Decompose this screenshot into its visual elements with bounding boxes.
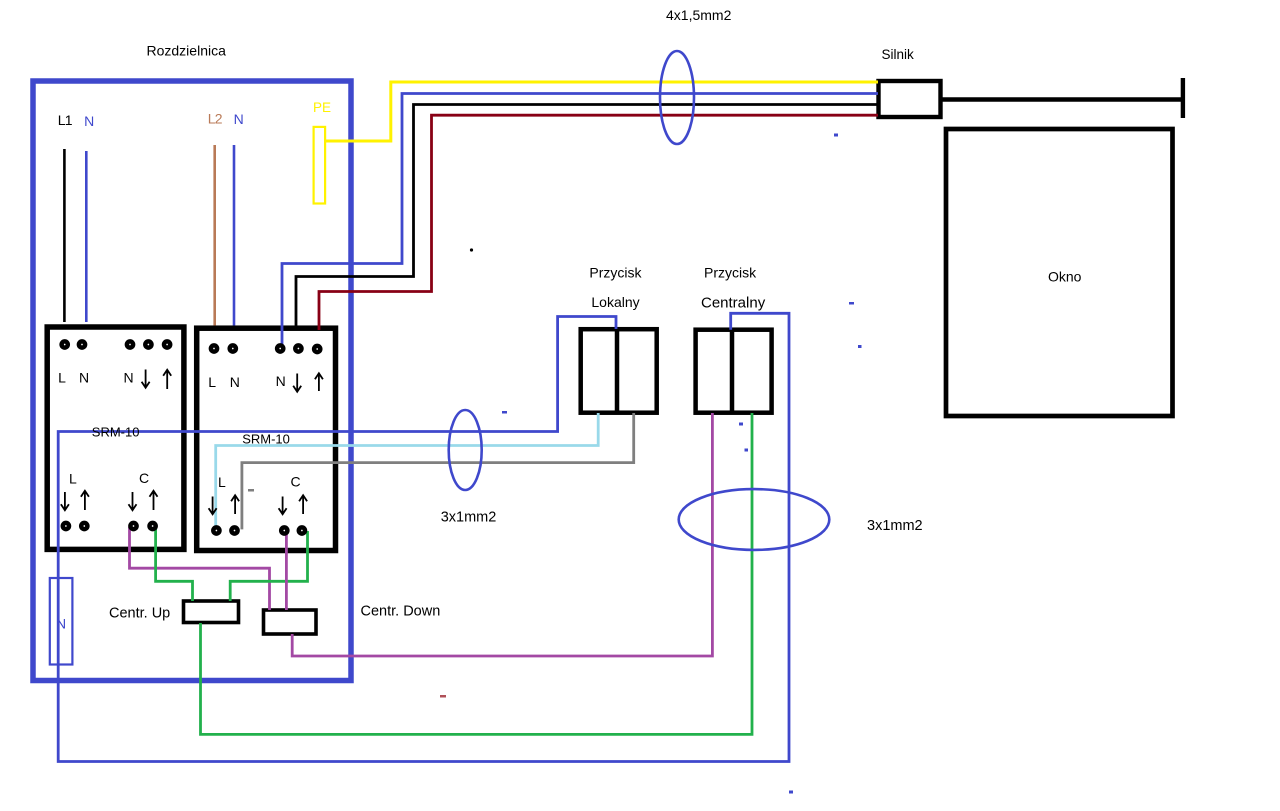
arrow U1 bottom C down [129,492,137,510]
wire motor down phase (dark red) [319,115,878,330]
terminal block Centr. Down (box) [264,610,317,634]
wire Centr. Up to central button (green) [201,413,753,734]
terminal block Centr. Up (box) [184,601,239,623]
arrow U2 bottom C down [279,497,287,515]
wire motor up phase (black) [296,105,878,331]
svg-text:Przycisk: Przycisk [589,265,642,281]
relay module U2 SRM-10 (right box) [197,328,336,550]
wire U2 C-down to Centr. Down (purple) [285,531,288,610]
terminals U1 top L N [62,341,86,347]
stray mark gray dash [248,489,254,492]
terminals U2 top N down up [277,345,320,352]
svg-text:N: N [56,616,66,632]
svg-text:N: N [79,370,89,386]
arrow U1 bottom C up [150,491,158,510]
wire Centr. Down to central button (purple) [292,413,712,656]
neutral busbar N (blue box) [50,578,73,665]
svg-text:3x1mm2: 3x1mm2 [441,510,497,526]
stray mark blue dot (near Centralny) [739,423,743,426]
window Okno (box) [946,129,1173,416]
svg-text:Przycisk: Przycisk [704,265,757,281]
svg-text:N: N [230,374,240,390]
cable marker ellipse 3x1mm2 (left) [449,410,482,490]
wire L1 feed (black) [63,149,66,322]
svg-text:Lokalny: Lokalny [591,294,639,310]
svg-text:N: N [234,111,244,127]
stray mark blue dot (below Centralny) [745,449,749,452]
wire motor N (blue) [282,94,878,349]
svg-text:Silnik: Silnik [882,47,915,62]
arrow U1 bottom L down [61,492,69,510]
svg-text:L: L [58,370,66,386]
stray mark blue dash (mid) [849,302,854,305]
cable marker ellipse 3x1mm2 (right) [679,489,830,550]
arrow U2 bottom C up [299,495,307,514]
svg-text:Centr. Up: Centr. Up [109,606,170,622]
wire N feed to U1 (blue) [85,151,88,322]
arrow U2 top up [315,373,323,391]
svg-text:N: N [276,373,286,389]
svg-text:Centr. Down: Centr. Down [361,604,441,620]
svg-text:SRM-10: SRM-10 [92,425,140,440]
svg-text:N: N [124,370,134,386]
arrow U2 bottom L down [209,497,217,515]
pushbutton S1 Przycisk Lokalny (box) [581,329,657,413]
wire U1 C-down to Centr. Down (purple) [130,527,270,610]
terminals U2 bottom C [281,527,305,533]
terminals U1 top N down up [127,341,170,347]
terminals U2 bottom L [213,527,237,533]
wire U2 C-up to Centr. Up (green) [230,531,307,601]
svg-text:C: C [139,470,149,486]
stray mark blue dash (near ellipse) [502,411,507,414]
terminals U2 top L N [211,345,236,351]
motor shaft end bar [1181,78,1185,118]
relay module U1 SRM-10 (left box) [47,327,184,549]
svg-text:L1: L1 [58,112,73,128]
stray mark black dot [470,248,473,251]
arrow U1 bottom L up [81,491,89,510]
svg-text:Centralny: Centralny [701,294,766,311]
svg-text:L2: L2 [208,110,223,126]
pushbutton S2 divider [730,330,735,413]
terminals U1 bottom C [130,523,155,529]
svg-text:C: C [291,474,301,490]
wire L2 feed (brown) [213,145,216,326]
wire U1 C-up to Centr. Up (green) [156,527,193,601]
wire local button to U2 L-up (gray) [242,413,634,529]
motor shaft line [941,97,1183,102]
terminals U1 bottom L [63,523,88,529]
enclosure Rozdzielnica (distribution board outline) [33,81,351,681]
wire neutral N loop (blue): local button, N bus, central button [58,313,789,761]
svg-text:Okno: Okno [1048,269,1082,285]
stray mark blue dot (bottom) [789,791,793,794]
svg-text:SRM-10: SRM-10 [242,432,290,447]
arrow U1 top down [142,370,150,388]
svg-text:L: L [218,474,226,490]
svg-text:PE: PE [313,100,331,115]
wire N feed to U2 (blue) [233,145,236,326]
svg-text:N: N [84,113,94,129]
arrow U2 bottom L up [231,495,239,514]
arrow U1 top up [163,370,171,389]
wire PE to motor (yellow) [326,82,878,141]
cable marker ellipse 4x1,5mm2 [660,51,694,144]
svg-text:3x1mm2: 3x1mm2 [867,518,923,534]
stray mark blue dash (top) [834,134,838,137]
wire local button to U2 L-down (light blue) [216,413,599,530]
svg-text:L: L [208,374,216,390]
motor Silnik (box) [879,81,941,117]
stray mark red dash [440,695,446,698]
pushbutton S2 Przycisk Centralny (box) [696,330,772,413]
svg-text:4x1,5mm2: 4x1,5mm2 [666,7,732,23]
svg-text:Rozdzielnica: Rozdzielnica [147,43,227,59]
svg-text:L: L [69,470,77,486]
stray mark blue dot [858,345,862,348]
arrow U2 top down [293,374,301,392]
pushbutton S1 divider [615,329,620,413]
PE busbar (yellow box) [314,127,326,204]
